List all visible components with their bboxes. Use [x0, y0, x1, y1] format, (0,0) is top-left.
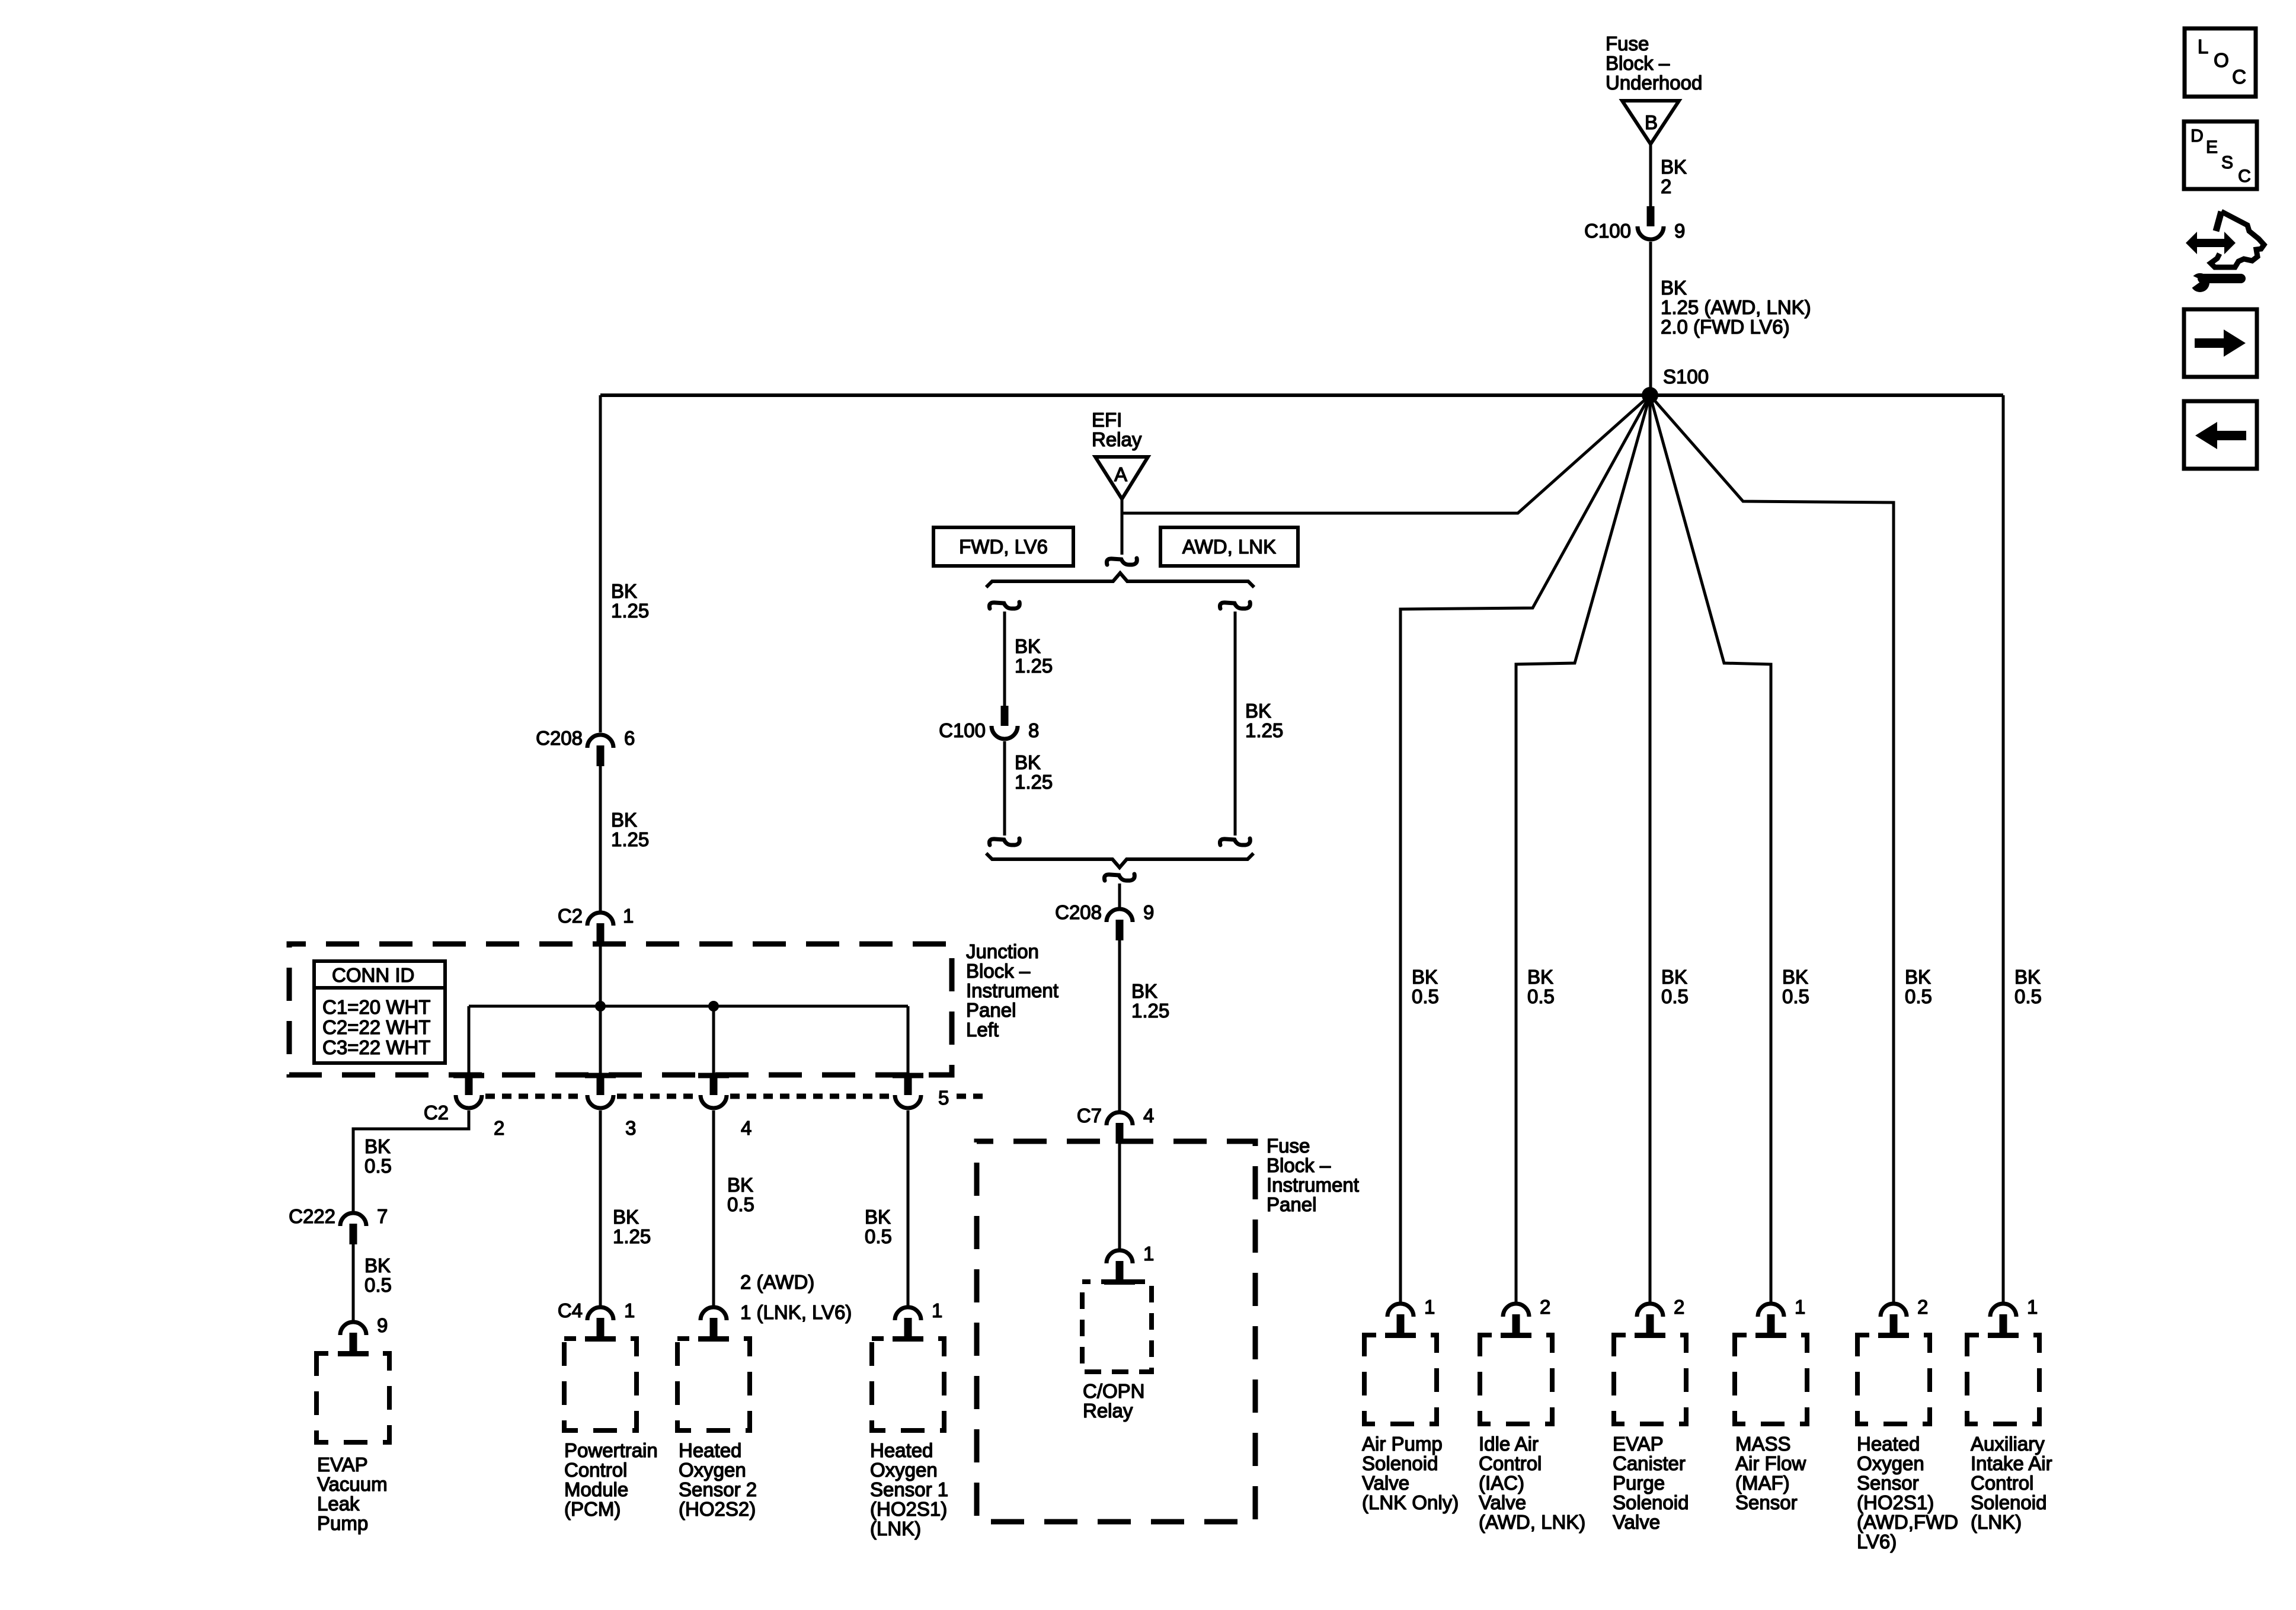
wire S100 to IAC valve — [1516, 395, 1650, 1302]
component label Heated Oxygen Sensor 1 (HO2S1) (LNK) — [870, 1439, 948, 1539]
icon double arrow with part and wrench — [2186, 212, 2264, 292]
svg-text:5: 5 — [938, 1087, 949, 1109]
junction block - instrument panel left (dashed box) — [289, 944, 952, 1075]
component label Fuse Block - Instrument Panel — [1267, 1135, 1359, 1215]
dotted connector row line — [485, 1094, 989, 1099]
svg-text:2: 2 — [1661, 175, 1671, 197]
svg-text:0.5: 0.5 — [1782, 985, 1809, 1007]
connector C2 pin 4 — [701, 1075, 752, 1139]
svg-text:1 (LNK, LV6): 1 (LNK, LV6) — [740, 1301, 852, 1323]
component Heated Oxygen Sensor 2 HO2S2 (dashed box) — [677, 1336, 750, 1430]
svg-text:LV6): LV6) — [1857, 1531, 1897, 1553]
svg-text:FWD, LV6: FWD, LV6 — [959, 536, 1048, 558]
svg-text:S: S — [2221, 153, 2233, 172]
svg-text:(AWD, LNK): (AWD, LNK) — [1479, 1511, 1585, 1533]
svg-text:1.25: 1.25 — [611, 828, 649, 850]
break mark FWD wire top — [989, 602, 1019, 609]
CONN ID table — [314, 961, 445, 1063]
svg-text:Sensor 2: Sensor 2 — [679, 1478, 757, 1500]
connector C222 pin 7 — [289, 1205, 388, 1244]
connector pin 1 (MASS Air Flow MAF Sensor) — [1758, 1296, 1805, 1335]
svg-text:8: 8 — [1028, 719, 1039, 741]
svg-text:Relay: Relay — [1092, 428, 1142, 450]
break mark below bottom brace — [1104, 874, 1134, 881]
svg-text:0.5: 0.5 — [727, 1193, 754, 1215]
svg-text:BK: BK — [1412, 966, 1438, 988]
svg-text:BK: BK — [1015, 635, 1041, 657]
svg-text:1: 1 — [2027, 1296, 2038, 1318]
svg-text:BK: BK — [611, 809, 637, 831]
wire S100 corner down to C208 pin 6 — [599, 395, 602, 732]
svg-text:BK: BK — [364, 1254, 391, 1276]
wire label BK 2 — [1661, 156, 1687, 197]
svg-text:7: 7 — [377, 1205, 388, 1227]
svg-text:0.5: 0.5 — [865, 1225, 892, 1247]
wire FWD option to C100 pin 8 — [1003, 612, 1006, 707]
svg-text:1: 1 — [624, 1299, 635, 1321]
svg-text:(LNK): (LNK) — [870, 1518, 921, 1539]
svg-text:Underhood: Underhood — [1606, 72, 1702, 94]
connector HO2S1 pin 1 — [895, 1299, 942, 1339]
svg-text:Auxiliary: Auxiliary — [1971, 1433, 2045, 1455]
component label Air Pump Solenoid Valve (LNK Only) — [1362, 1433, 1459, 1513]
svg-text:E: E — [2206, 137, 2218, 157]
connector C/OPN relay pin 1 — [1107, 1243, 1154, 1282]
svg-text:9: 9 — [1143, 901, 1154, 923]
wire to pin 4 — [712, 1006, 715, 1076]
wire label BK 1.25 (middle branch) — [1131, 980, 1169, 1022]
component label Heated Oxygen Sensor HO2S1 (AWD FWD LV6) — [1857, 1433, 1958, 1553]
option tag box FWD, LV6 — [933, 527, 1073, 566]
svg-text:Fuse: Fuse — [1606, 33, 1649, 55]
svg-text:Control: Control — [1971, 1472, 2033, 1494]
component Auxiliary Intake Air Control Solenoid (LNK) (dashed box) — [1967, 1333, 2039, 1424]
component label Idle Air Control IAC Valve (AWD LNK) — [1479, 1433, 1585, 1533]
svg-text:(AWD,FWD: (AWD,FWD — [1857, 1511, 1958, 1533]
connector C2 pin 5 — [895, 1075, 949, 1109]
wire label BK 0.5 (Auxiliary Intake Air Control Solenoid (LNK)) — [2014, 966, 2042, 1007]
svg-text:L: L — [2198, 36, 2208, 57]
wire label BK 1.25 (left branch lower) — [611, 809, 649, 850]
svg-text:BK: BK — [1245, 700, 1271, 722]
splice S100 junction dot — [1642, 387, 1658, 404]
ground bus wire from S100 left and right — [600, 393, 2003, 397]
svg-text:C2: C2 — [424, 1102, 449, 1124]
svg-text:4: 4 — [741, 1117, 752, 1139]
wire label BK 0.5 (pin2 branch lower) — [364, 1254, 392, 1296]
wire pin5 to HO2S1 — [907, 1110, 910, 1306]
svg-text:Block –: Block – — [966, 960, 1031, 982]
svg-text:BK: BK — [364, 1135, 391, 1157]
wire triangle B to connector C100 pin 9 — [1649, 142, 1652, 210]
svg-text:B: B — [1645, 111, 1658, 133]
svg-text:1.25: 1.25 — [1015, 771, 1053, 793]
wire label BK 0.5 (Air Pump Solenoid Valve (LNK Only)) — [1412, 966, 1439, 1007]
svg-text:BK: BK — [2014, 966, 2041, 988]
connector HO2S2 pin — [701, 1307, 727, 1339]
svg-text:AWD, LNK: AWD, LNK — [1182, 536, 1276, 558]
svg-text:Heated: Heated — [679, 1439, 741, 1461]
junction dot at pin4 branch — [708, 1001, 719, 1012]
wire label BK 0.5 (EVAP Canister Purge Solenoid Valve) — [1661, 966, 1689, 1007]
svg-text:BK: BK — [1661, 156, 1687, 178]
svg-text:6: 6 — [624, 727, 635, 749]
top option brace — [986, 573, 1254, 587]
wire C222-7 to EVAP pump pin 9 — [352, 1244, 355, 1321]
svg-text:1: 1 — [1143, 1243, 1154, 1265]
svg-text:1.25 (AWD, LNK): 1.25 (AWD, LNK) — [1661, 296, 1811, 318]
svg-text:Intake Air: Intake Air — [1971, 1452, 2052, 1474]
component Heated Oxygen Sensor HO2S1 (AWD FWD LV6) (dashed box) — [1857, 1333, 1930, 1424]
wire label BK 1.25 (left branch upper) — [611, 580, 649, 622]
icon box arrow right — [2184, 309, 2257, 377]
break mark above top brace — [1107, 558, 1137, 565]
icon box LOC — [2185, 28, 2256, 97]
connector C208 pin 6 — [536, 727, 635, 766]
svg-text:Valve: Valve — [1613, 1511, 1660, 1533]
wire label BK 1.25 (FWD lower) — [1015, 751, 1053, 793]
wire C208-6 to C2-1 — [599, 765, 602, 911]
svg-text:2: 2 — [494, 1117, 504, 1139]
svg-text:Instrument: Instrument — [966, 980, 1059, 1001]
svg-text:EVAP: EVAP — [1613, 1433, 1664, 1455]
wire pin4 to HO2S2 — [712, 1110, 715, 1306]
svg-text:2: 2 — [1540, 1296, 1550, 1318]
svg-text:(IAC): (IAC) — [1479, 1472, 1524, 1494]
wire label BK 0.5 (pin5 branch) — [865, 1206, 892, 1247]
svg-text:0.5: 0.5 — [1661, 985, 1689, 1007]
connector C100 pin 9 — [1584, 206, 1685, 242]
svg-text:0.5: 0.5 — [2014, 985, 2042, 1007]
svg-text:(HO2S1): (HO2S1) — [1857, 1491, 1934, 1513]
component Powertrain Control Module PCM (dashed box) — [564, 1336, 637, 1430]
svg-text:Relay: Relay — [1083, 1400, 1133, 1422]
connector EVAP pump pin 9 — [340, 1314, 388, 1353]
svg-text:BK: BK — [1782, 966, 1808, 988]
svg-text:1: 1 — [932, 1299, 942, 1321]
svg-text:Solenoid: Solenoid — [1613, 1491, 1689, 1513]
svg-text:Heated: Heated — [870, 1439, 933, 1461]
svg-text:Oxygen: Oxygen — [870, 1459, 938, 1481]
component EVAP Vacuum Leak Pump (dashed box) — [316, 1351, 389, 1442]
connector pin 1 (Air Pump Solenoid Valve (LNK Only)) — [1387, 1296, 1435, 1335]
svg-text:BK: BK — [1527, 966, 1553, 988]
svg-text:Pump: Pump — [317, 1512, 368, 1534]
component label Powertrain Control Module (PCM) — [564, 1439, 658, 1520]
svg-text:Sensor: Sensor — [1735, 1491, 1798, 1513]
connector pin 2 (Heated Oxygen Sensor HO2S1 (AWD FWD LV6)) — [1881, 1296, 1928, 1335]
wire S100 to HO2S1 right — [1650, 395, 1894, 1302]
svg-text:BK: BK — [865, 1206, 891, 1228]
component label C/OPN Relay — [1083, 1380, 1145, 1422]
svg-text:1.25: 1.25 — [613, 1225, 651, 1247]
svg-text:C100: C100 — [939, 719, 986, 741]
svg-text:9: 9 — [377, 1314, 388, 1336]
wire C100-8 down to bottom brace — [1003, 741, 1006, 836]
svg-text:Module: Module — [564, 1478, 628, 1500]
svg-text:Solenoid: Solenoid — [1971, 1491, 2046, 1513]
component label Auxiliary Intake Air Control Solenoid (LNK) — [1971, 1433, 2052, 1533]
svg-text:1.25: 1.25 — [1015, 655, 1053, 677]
svg-text:Block –: Block – — [1267, 1154, 1331, 1176]
svg-text:C: C — [2238, 167, 2251, 186]
svg-text:Air Flow: Air Flow — [1735, 1452, 1806, 1474]
component MASS Air Flow MAF Sensor (dashed box) — [1735, 1333, 1807, 1424]
svg-text:1: 1 — [1795, 1296, 1805, 1318]
svg-text:Instrument: Instrument — [1267, 1174, 1359, 1196]
svg-text:Control: Control — [1479, 1452, 1542, 1474]
power feed triangle B (Fuse Block - Underhood) — [1622, 101, 1679, 144]
wire label BK 0.5 (MASS Air Flow MAF Sensor) — [1782, 966, 1809, 1007]
wire label BK 1.25 (AWD) — [1245, 700, 1283, 741]
wire C7-4 to C/OPN relay pin 1 — [1118, 1144, 1121, 1249]
wire label BK 0.5 (Idle Air Control IAC Valve (AWD LNK)) — [1527, 966, 1555, 1007]
pin label 2 (AWD) / 1 (LNK, LV6) — [740, 1271, 852, 1323]
connector C4 pin 1 — [558, 1299, 635, 1339]
component label EVAP Vacuum Leak Pump — [317, 1454, 388, 1534]
option tag box AWD, LNK — [1160, 527, 1298, 566]
svg-text:(MAF): (MAF) — [1735, 1472, 1790, 1494]
wire EFI relay to S100 — [1122, 395, 1650, 513]
svg-text:0.5: 0.5 — [364, 1274, 392, 1296]
wire EFI relay stub down to option brace — [1121, 513, 1124, 555]
svg-text:C208: C208 — [1055, 901, 1102, 923]
connector pin 1 (Auxiliary Intake Air Control Solenoid (LNK)) — [1990, 1296, 2038, 1335]
wire S100 to MAF sensor — [1650, 395, 1771, 1302]
svg-text:1: 1 — [1424, 1296, 1435, 1318]
svg-text:C3=22 WHT: C3=22 WHT — [322, 1036, 430, 1058]
connector pin 2 (Idle Air Control IAC Valve (AWD LNK)) — [1503, 1296, 1550, 1335]
svg-text:(HO2S1): (HO2S1) — [870, 1498, 947, 1520]
component label EVAP Canister Purge Solenoid Valve — [1613, 1433, 1689, 1533]
svg-text:C2: C2 — [558, 905, 583, 927]
wire bus corner down to auxiliary intake air control solenoid — [2002, 395, 2005, 1302]
wire label BK 0.5 (Heated Oxygen Sensor HO2S1 (AWD FWD LV6)) — [1905, 966, 1932, 1007]
svg-text:1.25: 1.25 — [611, 600, 649, 622]
icon box arrow left — [2184, 401, 2257, 469]
connector C100 pin 8 — [939, 706, 1039, 741]
wire C2-1 down through junction block to pin 3 — [599, 944, 602, 1076]
svg-text:1: 1 — [623, 905, 634, 927]
svg-text:Leak: Leak — [317, 1493, 360, 1515]
wire label BK 1.25 (FWD upper) — [1015, 635, 1053, 677]
svg-text:C7: C7 — [1077, 1105, 1102, 1126]
svg-text:CONN ID: CONN ID — [332, 964, 414, 986]
relay C/OPN (dashed box) — [1082, 1279, 1152, 1372]
svg-text:Oxygen: Oxygen — [679, 1459, 746, 1481]
junction dot at pin3 branch — [595, 1001, 606, 1012]
svg-text:Solenoid: Solenoid — [1362, 1452, 1438, 1474]
svg-text:0.5: 0.5 — [1905, 985, 1932, 1007]
internal bus wire inside junction block — [469, 1005, 908, 1008]
svg-text:S100: S100 — [1663, 366, 1709, 388]
svg-text:EVAP: EVAP — [317, 1454, 368, 1475]
svg-text:(HO2S2): (HO2S2) — [679, 1498, 756, 1520]
svg-text:Panel: Panel — [1267, 1193, 1316, 1215]
fuse block - instrument panel (dashed box) — [977, 1141, 1255, 1522]
connector C208 pin 9 — [1055, 901, 1154, 940]
wire label BK 1.25 (pin3 branch) — [613, 1206, 651, 1247]
svg-text:0.5: 0.5 — [1527, 985, 1555, 1007]
component EVAP Canister Purge Solenoid Valve (dashed box) — [1614, 1333, 1686, 1424]
component label EFI Relay — [1092, 409, 1142, 450]
component label Fuse Block - Underhood — [1606, 33, 1702, 94]
wire to pin 2 — [468, 1006, 471, 1076]
svg-text:(LNK): (LNK) — [1971, 1511, 2022, 1533]
node S100 label — [1663, 366, 1709, 388]
svg-text:Vacuum: Vacuum — [317, 1473, 388, 1495]
junction block edge dashes at pin bars — [453, 1073, 923, 1078]
svg-text:Air Pump: Air Pump — [1362, 1433, 1443, 1455]
connector pin 2 (EVAP Canister Purge Solenoid Valve) — [1637, 1296, 1684, 1335]
svg-text:EFI: EFI — [1092, 409, 1122, 431]
svg-text:C4: C4 — [558, 1299, 583, 1321]
wire pin3 to C4 pin 1 — [599, 1110, 602, 1306]
component label MASS Air Flow MAF Sensor — [1735, 1433, 1806, 1513]
connector C7 pin 4 — [1077, 1105, 1155, 1144]
break mark AWD wire top — [1220, 602, 1250, 609]
svg-text:BK: BK — [611, 580, 637, 602]
bottom option brace — [986, 853, 1253, 868]
svg-text:BK: BK — [1661, 966, 1687, 988]
svg-text:1.25: 1.25 — [1131, 1000, 1169, 1022]
svg-text:Powertrain: Powertrain — [564, 1439, 658, 1461]
power feed triangle A (EFI Relay) — [1095, 457, 1148, 499]
wire C208-9 to C7-4 — [1118, 940, 1121, 1111]
wire bottom brace to C208 pin 9 — [1118, 884, 1121, 908]
svg-text:3: 3 — [625, 1117, 636, 1139]
svg-text:1.25: 1.25 — [1245, 719, 1283, 741]
wire label BK 0.5 (pin4 branch) — [727, 1174, 754, 1215]
wire S100 to air pump solenoid valve — [1400, 395, 1650, 1302]
svg-text:C222: C222 — [289, 1205, 335, 1227]
svg-text:(PCM): (PCM) — [564, 1498, 621, 1520]
svg-text:Idle Air: Idle Air — [1479, 1433, 1539, 1455]
svg-text:2 (AWD): 2 (AWD) — [740, 1271, 814, 1293]
svg-text:Purge: Purge — [1613, 1472, 1665, 1494]
break mark AWD wire bottom — [1220, 838, 1250, 845]
svg-text:BK: BK — [1131, 980, 1157, 1002]
svg-text:BK: BK — [727, 1174, 753, 1196]
svg-text:Control: Control — [564, 1459, 627, 1481]
connector C2 pin 1 (junction block) — [558, 905, 634, 944]
svg-text:Panel: Panel — [966, 999, 1016, 1021]
wire to pin 5 — [907, 1006, 910, 1076]
icon box DESC — [2184, 121, 2257, 189]
svg-text:2.0 (FWD LV6): 2.0 (FWD LV6) — [1661, 316, 1790, 338]
svg-text:Valve: Valve — [1362, 1472, 1409, 1494]
component Air Pump Solenoid Valve (LNK Only) (dashed box) — [1364, 1333, 1437, 1424]
svg-text:9: 9 — [1674, 220, 1685, 242]
component Idle Air Control IAC Valve (AWD LNK) (dashed box) — [1480, 1333, 1552, 1424]
connector C2 pin 3 — [587, 1075, 636, 1139]
wire S100 to EVAP canister purge valve — [1649, 395, 1652, 1302]
svg-text:2: 2 — [1917, 1296, 1928, 1318]
svg-text:Oxygen: Oxygen — [1857, 1452, 1924, 1474]
svg-text:Junction: Junction — [966, 940, 1039, 962]
svg-text:D: D — [2191, 126, 2204, 146]
wire pin2 to C222 pin 7 — [353, 1110, 469, 1212]
svg-text:4: 4 — [1143, 1105, 1154, 1126]
svg-text:Left: Left — [966, 1019, 999, 1041]
svg-text:BK: BK — [1661, 277, 1687, 299]
svg-text:Fuse: Fuse — [1267, 1135, 1310, 1157]
svg-text:BK: BK — [1015, 751, 1041, 773]
svg-text:MASS: MASS — [1735, 1433, 1791, 1455]
svg-text:C208: C208 — [536, 727, 583, 749]
svg-text:C2=22 WHT: C2=22 WHT — [322, 1016, 430, 1038]
svg-text:Canister: Canister — [1613, 1452, 1686, 1474]
svg-text:BK: BK — [613, 1206, 639, 1228]
svg-text:Heated: Heated — [1857, 1433, 1920, 1455]
svg-text:Valve: Valve — [1479, 1491, 1526, 1513]
component label Heated Oxygen Sensor 2 (HO2S2) — [679, 1439, 757, 1520]
break mark FWD wire bottom — [989, 838, 1019, 845]
svg-text:Sensor 1: Sensor 1 — [870, 1478, 948, 1500]
wire C100-9 to splice S100 — [1649, 242, 1652, 395]
svg-text:Sensor: Sensor — [1857, 1472, 1919, 1494]
svg-text:O: O — [2214, 49, 2229, 71]
svg-text:C: C — [2232, 66, 2246, 88]
svg-text:A: A — [1114, 463, 1127, 485]
connector C2 pin 2 — [424, 1075, 505, 1139]
svg-text:0.5: 0.5 — [1412, 985, 1439, 1007]
wire AWD option down to bottom brace — [1234, 612, 1237, 836]
svg-text:BK: BK — [1905, 966, 1931, 988]
svg-text:C100: C100 — [1584, 220, 1631, 242]
svg-text:0.5: 0.5 — [364, 1155, 392, 1177]
wire label BK 1.25 (AWD, LNK) 2.0 (FWD LV6) — [1661, 277, 1811, 338]
wire label BK 0.5 (pin2 branch upper) — [364, 1135, 392, 1177]
svg-text:(LNK Only): (LNK Only) — [1362, 1491, 1459, 1513]
svg-text:C1=20 WHT: C1=20 WHT — [322, 996, 430, 1018]
svg-text:C/OPN: C/OPN — [1083, 1380, 1145, 1402]
component Heated Oxygen Sensor 1 HO2S1 LNK (dashed box) — [872, 1336, 944, 1430]
svg-text:Block –: Block – — [1606, 52, 1670, 74]
component label Junction Block - Instrument Panel Left — [966, 940, 1059, 1041]
svg-text:2: 2 — [1674, 1296, 1684, 1318]
